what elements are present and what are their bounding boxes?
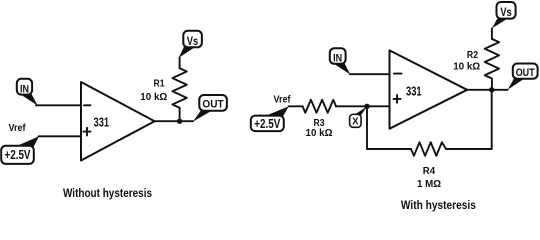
svg-text:R4: R4 [423,165,436,177]
svg-text:+2.5V: +2.5V [254,117,281,131]
svg-text:OUT: OUT [202,99,223,111]
svg-text:10 kΩ: 10 kΩ [140,91,167,103]
svg-text:Vs: Vs [187,34,199,48]
svg-text:IN: IN [333,53,342,65]
svg-text:X: X [352,117,359,128]
svg-text:10 kΩ: 10 kΩ [306,127,333,139]
svg-text:Without hysteresis: Without hysteresis [63,186,152,200]
svg-text:R2: R2 [467,49,478,61]
svg-text:1 MΩ: 1 MΩ [417,178,441,190]
svg-text:R1: R1 [154,78,165,90]
svg-text:OUT: OUT [516,67,535,79]
svg-text:10 kΩ: 10 kΩ [453,61,480,73]
svg-text:331: 331 [406,85,422,99]
svg-text:With hysteresis: With hysteresis [401,198,476,212]
svg-text:Vref: Vref [274,94,292,105]
svg-text:+2.5V: +2.5V [5,148,32,162]
svg-text:331: 331 [94,115,110,129]
svg-text:Vs: Vs [500,5,512,19]
svg-text:IN: IN [20,83,29,95]
svg-text:Vref: Vref [9,123,27,134]
